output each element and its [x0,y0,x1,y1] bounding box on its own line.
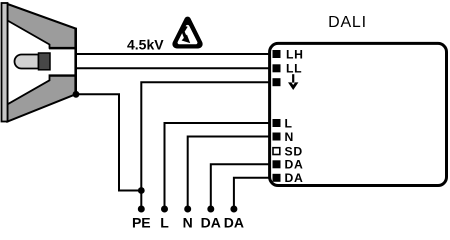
wire PE to ballast ground terminal [141,82,272,209]
lamp capsule holder [39,53,51,70]
svg-text:DA: DA [224,215,244,229]
junction dot PE [138,187,145,194]
terminal square DA1 [273,160,281,168]
wire N [188,137,272,210]
terminal square LH [273,50,281,58]
svg-text:LH: LH [286,47,304,61]
svg-text:L: L [285,116,293,130]
svg-text:DA: DA [285,171,304,185]
lamp right edge bar [74,28,77,95]
svg-text:DA: DA [201,215,221,229]
terminal square DA2 [273,174,281,182]
lamp burner capsule [15,55,39,69]
terminal square PE [273,78,281,86]
lamp base box bottom edge [49,74,76,76]
wire lamp reflector to PE [76,94,141,190]
svg-text:SD: SD [285,144,303,158]
lamp inner cavity and base [8,21,76,105]
lamp PE junction dot on reflector [73,91,80,98]
wire L [165,123,273,209]
svg-text:DALI: DALI [328,14,367,31]
svg-text:PE: PE [132,215,151,229]
lamp base box top edge [49,47,76,49]
svg-text:LL: LL [286,62,302,76]
terminal square N [273,133,281,141]
svg-text:N: N [183,215,193,229]
wire DA2 [234,178,272,209]
terminal dot DA2 [230,206,237,213]
terminal dot PE [138,206,145,213]
terminal dot N [184,206,191,213]
terminal square L [273,119,281,127]
ballast box U1 [270,43,447,185]
lamp LA1 reflector body [8,4,76,122]
lamp front rim [2,3,8,122]
terminal dot DA1 [207,206,214,213]
terminal square LL [273,64,281,72]
svg-text:L: L [160,215,169,229]
terminal dot L [161,206,168,213]
svg-text:4.5kV: 4.5kV [127,37,164,53]
wire lamp LH to ballast [76,53,272,55]
wire lamp LL to ballast [76,67,272,69]
svg-text:DA: DA [285,158,304,172]
terminal square SD open [273,148,280,155]
ground arrow symbol [288,74,298,90]
high voltage warning triangle [172,17,202,49]
wire DA1 [211,164,272,209]
svg-text:N: N [285,130,295,144]
